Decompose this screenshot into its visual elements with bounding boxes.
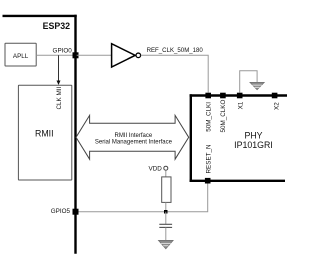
node junction dot	[164, 210, 168, 214]
ground symbol at X1	[250, 82, 264, 89]
svg-text:PHY: PHY	[244, 130, 262, 140]
svg-text:CLK MII: CLK MII	[56, 87, 63, 110]
svg-text:X2: X2	[273, 102, 280, 110]
RMII block	[18, 85, 71, 180]
pin 50M_CLKO square	[220, 93, 226, 99]
wire X1 to ground	[240, 71, 257, 93]
svg-text:RESET_N: RESET_N	[206, 144, 213, 173]
arrowhead into RMII box	[57, 81, 61, 86]
svg-text:RMII: RMII	[35, 128, 54, 138]
ESP32 box top border	[3, 15, 77, 17]
pin RESET_N square	[205, 178, 211, 184]
svg-text:X1: X1	[238, 101, 245, 109]
wire capacitor to ground	[165, 228, 167, 241]
svg-text:GPIO0: GPIO0	[53, 47, 73, 54]
RMII interface double arrow	[76, 115, 189, 159]
svg-text:ESP32: ESP32	[43, 21, 70, 31]
svg-text:VDD: VDD	[149, 165, 163, 172]
wire GPIO5 to RESET_N	[79, 183, 208, 211]
svg-text:REF_CLK_50M_180: REF_CLK_50M_180	[147, 47, 204, 54]
wire APLL to GPIO0 junction	[36, 54, 74, 56]
inverter output bubble	[136, 53, 141, 58]
capacitor C1 plate 2	[159, 226, 172, 228]
wire GPIO0 to buffer input	[77, 54, 111, 56]
PHY box top border	[190, 94, 287, 96]
wire GPIO0 clk branch down to RMII	[58, 55, 60, 81]
svg-text:APLL: APLL	[13, 53, 29, 60]
pin X2 square	[272, 93, 278, 99]
svg-text:50M_CLKO: 50M_CLKO	[220, 99, 227, 132]
pin X1 square	[237, 93, 243, 99]
pin 50M_CLKI square	[205, 93, 211, 99]
capacitor C1 plate 1	[159, 223, 172, 225]
buffer/inverter U1 triangle	[112, 44, 136, 67]
wire VDD to resistor	[165, 170, 167, 177]
wire buffer output to 50M_CLKI	[141, 55, 208, 92]
svg-text:50M_CLKI: 50M_CLKI	[206, 102, 213, 132]
PHY box left border	[190, 94, 192, 182]
svg-text:Serial Management Interface: Serial Management Interface	[95, 139, 173, 145]
VDD terminal circle	[164, 166, 168, 170]
wire resistor to junction	[165, 202, 167, 211]
wire junction to capacitor	[165, 212, 167, 225]
svg-text:RMII Interface: RMII Interface	[115, 133, 153, 139]
ground symbol at capacitor	[158, 240, 173, 249]
svg-text:IP101GRI: IP101GRI	[234, 140, 273, 150]
APLL block	[5, 43, 36, 66]
PHY box bottom border	[190, 180, 285, 182]
ESP32 box right border	[74, 15, 76, 254]
resistor R1	[162, 177, 171, 203]
svg-text:GPIO5: GPIO5	[51, 208, 71, 215]
node GPIO0 junction square	[73, 52, 79, 58]
node GPIO5 junction square	[73, 209, 79, 215]
